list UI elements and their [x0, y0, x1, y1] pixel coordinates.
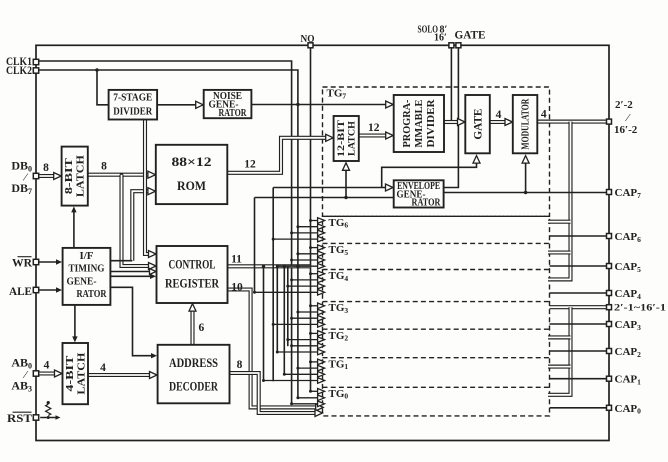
wire SOLO/8 to divider output — [450, 48, 452, 122]
svg-text:12-BIT: 12-BIT — [336, 120, 346, 157]
block 4-bit latch — [63, 343, 89, 404]
bus ROM out 12 to 12-bit latch — [227, 134, 333, 173]
pin label CAP1 — [615, 374, 642, 387]
svg-text:GATE: GATE — [455, 30, 486, 42]
svg-text:4: 4 — [496, 109, 502, 121]
pin label NO — [301, 34, 315, 45]
block 88x12 ROM — [156, 145, 228, 204]
bus modulator output 4 — [537, 109, 609, 122]
terminal CAP4 — [607, 291, 612, 296]
block 7-stage divider — [109, 90, 158, 120]
svg-text:11: 11 — [231, 254, 242, 266]
svg-text:MMABLE: MMABLE — [414, 99, 425, 147]
terminal CAP2 — [607, 349, 612, 354]
block envelope generator — [394, 180, 444, 208]
svg-text:7-STAGE: 7-STAGE — [113, 92, 152, 104]
svg-text:I/F: I/F — [80, 250, 94, 262]
pin label ALE — [9, 284, 32, 298]
pin label 2-2/16-2 — [614, 99, 638, 136]
terminal 2-2 — [607, 119, 612, 124]
svg-text:4-BIT: 4-BIT — [65, 355, 76, 391]
svg-text:DIVIDER: DIVIDER — [426, 99, 437, 148]
bus address decoder to control register 6 — [189, 304, 205, 345]
svg-text:LATCH: LATCH — [347, 121, 357, 156]
svg-text:10: 10 — [231, 282, 243, 294]
terminal CAP5 — [607, 264, 612, 269]
block I/F timing generator — [63, 248, 111, 305]
bus programmable divider to gate — [444, 119, 465, 126]
svg-text:CONTROL: CONTROL — [169, 257, 216, 272]
chip outline border — [36, 45, 609, 440]
block address decoder — [158, 345, 230, 404]
svg-text:16′-2: 16′-2 — [614, 124, 638, 136]
RST input with pull-up — [40, 401, 60, 420]
pin label CAP4 — [615, 288, 642, 301]
svg-text:RATOR: RATOR — [77, 288, 108, 300]
wire I/F out 1 — [110, 260, 132, 262]
bus control register out 11 — [228, 254, 311, 268]
bus divider to control register — [145, 117, 156, 257]
svg-text:8: 8 — [101, 161, 107, 173]
bus 8-bit latch to ROM — [88, 161, 156, 179]
terminal CLK1 — [33, 59, 38, 64]
terminal WR — [33, 259, 38, 264]
wire 16/GATE down to envelope — [444, 48, 459, 188]
pin label DB0/DB7 — [11, 159, 32, 196]
wire I/F to 4-bit latch clock — [72, 305, 77, 343]
bus 4-bit latch to address decoder — [88, 362, 157, 379]
pin label CAP6 — [615, 231, 642, 244]
svg-text:8: 8 — [237, 359, 243, 371]
wire I/F out 3 — [110, 274, 156, 279]
svg-text:RST: RST — [7, 411, 32, 425]
terminal CAP3 — [607, 322, 612, 327]
bus output tie TG6-TG4 — [548, 122, 571, 280]
wire harness vertical feeds — [255, 188, 288, 382]
bus B ROM input 2 riser — [132, 188, 155, 261]
pin label 2-1~16-1 — [614, 303, 666, 314]
bus address decoder out 8 — [230, 359, 323, 417]
svg-text:2′-1~16′-1: 2′-1~16′-1 — [614, 303, 666, 314]
svg-text:6: 6 — [199, 322, 205, 334]
wire CLK2 to 7-stage divider — [97, 70, 108, 105]
block 12-bit latch — [334, 116, 359, 161]
terminal CAP0 — [607, 405, 612, 410]
terminal 2-1 — [607, 305, 612, 310]
svg-text:4: 4 — [541, 109, 547, 121]
TG row input stubs — [253, 218, 325, 407]
block noise generator — [204, 90, 252, 119]
wire WR input — [39, 259, 62, 264]
svg-text:REGISTER: REGISTER — [165, 276, 219, 291]
svg-text:RATOR: RATOR — [219, 108, 247, 119]
svg-text:GENE-: GENE- — [67, 275, 97, 287]
block gate — [465, 95, 490, 153]
wire envelope generator input — [273, 184, 393, 191]
svg-text:8: 8 — [43, 162, 49, 174]
wire ALE input — [39, 287, 62, 292]
svg-text:ADDRESS: ADDRESS — [169, 355, 218, 370]
block modulator — [513, 95, 538, 153]
terminal CAP1 — [607, 376, 612, 381]
svg-text:MODULATOR: MODULATOR — [520, 98, 531, 150]
TG6..TG0 dashed blocks — [323, 216, 550, 416]
pin label CAP7 — [615, 187, 642, 200]
svg-text:4: 4 — [100, 362, 106, 374]
block 8-bit latch — [62, 147, 88, 206]
terminal AB0-AB3 — [33, 371, 38, 376]
svg-text:LATCH: LATCH — [76, 352, 87, 394]
svg-text:PROGRA-: PROGRA- — [402, 100, 413, 148]
svg-text:GATE: GATE — [472, 108, 484, 139]
wire I/F to address decoder — [110, 287, 157, 358]
wire CAP outputs — [550, 236, 610, 408]
pin label WR — [12, 256, 32, 270]
svg-text:2′-2: 2′-2 — [615, 99, 633, 111]
svg-text:DIVIDER: DIVIDER — [113, 106, 153, 118]
bus output tie TG3-TG0 — [548, 307, 609, 395]
bus 12-bit latch to programmable divider 12 — [359, 122, 393, 139]
wire CLK2 — [39, 68, 300, 398]
block control register — [157, 246, 228, 303]
svg-text:RATOR: RATOR — [412, 198, 442, 209]
svg-text:WR: WR — [12, 256, 32, 270]
svg-text:LATCH: LATCH — [76, 155, 87, 197]
wire NO net — [310, 48, 312, 391]
pin label CAP5 — [615, 261, 642, 274]
wire CLK1 — [39, 61, 292, 404]
svg-text:12: 12 — [368, 122, 380, 134]
terminal NO — [308, 43, 313, 48]
svg-text:DECODER: DECODER — [169, 379, 218, 394]
svg-text:88×12: 88×12 — [172, 155, 212, 169]
svg-text:NO: NO — [301, 34, 315, 45]
TG7 dashed block — [323, 87, 550, 216]
terminal CAP7 — [607, 190, 612, 195]
wire gate lower input — [382, 156, 480, 188]
svg-text:8-BIT: 8-BIT — [64, 158, 75, 194]
pin label CAP0 — [615, 403, 642, 416]
svg-text:ALE: ALE — [9, 284, 32, 298]
pin label CLK1 CLK2 — [6, 54, 32, 77]
pin label AB0/AB3 — [11, 356, 32, 394]
wire divider to noise generator — [157, 101, 203, 108]
terminal RST — [33, 415, 38, 420]
svg-text:4: 4 — [44, 360, 50, 372]
wire envelope lower line and 12-bit latch load — [255, 163, 395, 199]
block programmable divider — [394, 95, 444, 152]
pin label CAP2 — [615, 346, 642, 359]
terminal CAP6 — [607, 234, 612, 239]
svg-text:TIMING: TIMING — [69, 263, 105, 275]
wire I/F out 2 — [110, 269, 156, 275]
svg-text:CLK2: CLK2 — [6, 63, 32, 77]
wire envelope output to modulator and CAP7 — [444, 156, 609, 195]
svg-text:16′: 16′ — [434, 33, 447, 44]
bus gate to modulator 4 — [490, 109, 513, 126]
terminal ALE — [33, 287, 38, 292]
bus A latch-out down to control register — [122, 175, 157, 270]
terminal DB0-DB7 — [33, 173, 38, 178]
pin label SOLO 8 16 GATE — [418, 25, 486, 44]
pin label CAP3 — [615, 319, 642, 332]
bus AB input 4 — [39, 360, 62, 378]
terminal 16 GATE — [456, 43, 461, 48]
bus control register out 10 — [228, 282, 324, 411]
terminal CLK2 — [33, 68, 38, 73]
wire I/F to 8-bit latch clock — [71, 206, 76, 248]
bus DB input 8 — [39, 162, 62, 180]
svg-text:12: 12 — [244, 159, 256, 171]
terminal SOLO 8 — [449, 43, 454, 48]
svg-text:ROM: ROM — [177, 179, 206, 193]
wire noise output to programmable divider — [251, 101, 393, 108]
pin label RST — [7, 411, 32, 425]
